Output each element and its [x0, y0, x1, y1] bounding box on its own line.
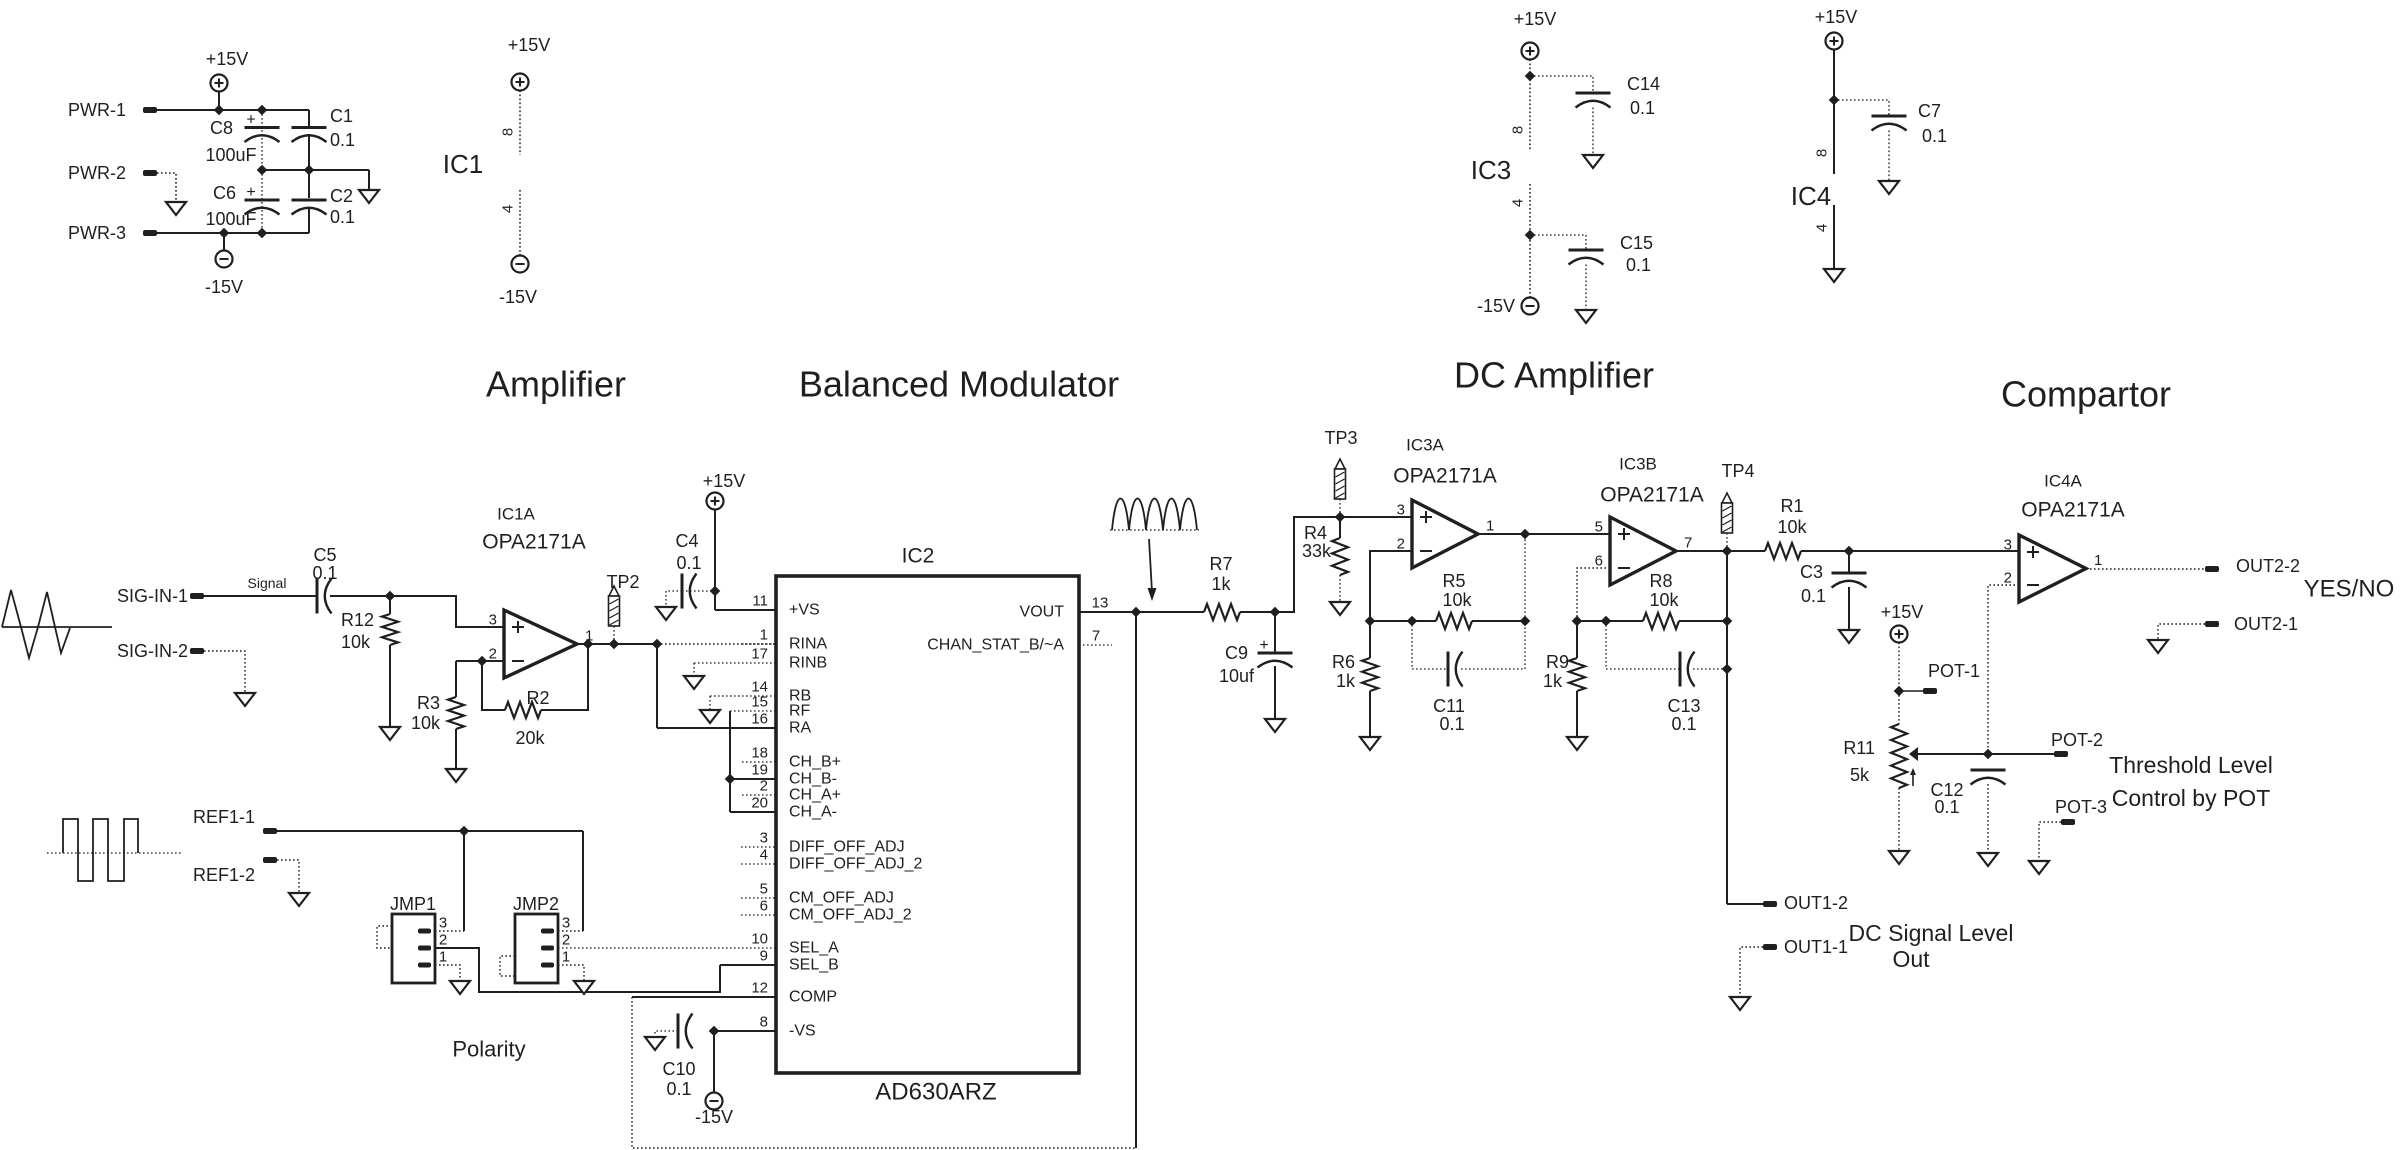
ground: [700, 710, 720, 723]
svg-text:R2: R2: [526, 688, 549, 708]
junction: [1520, 616, 1529, 625]
wire: [456, 660, 504, 662]
svg-text:R11: R11: [1843, 738, 1875, 758]
junction: [214, 105, 223, 114]
resistor R8 10k feedback: [1643, 613, 1679, 629]
IC IC2 AD630ARZ body: [776, 576, 1079, 1073]
svg-text:3: 3: [1397, 502, 1405, 519]
svg-text:-15V: -15V: [205, 277, 243, 297]
svg-text:-15V: -15V: [499, 287, 537, 307]
svg-text:C8: C8: [210, 118, 233, 138]
IC2 pin 14 RB: [710, 695, 776, 697]
svg-text:JMP2: JMP2: [513, 894, 559, 914]
svg-text:10uf: 10uf: [1219, 666, 1255, 686]
svg-text:20: 20: [751, 795, 768, 812]
svg-text:0.1: 0.1: [330, 130, 355, 150]
svg-text:C2: C2: [330, 186, 353, 206]
ground: [380, 727, 400, 740]
svg-text:+15V: +15V: [1815, 7, 1858, 27]
ground: [1265, 719, 1285, 732]
wire: [1135, 612, 1137, 1148]
capacitor C2 0.1: [292, 199, 327, 202]
svg-text:+: +: [246, 112, 255, 129]
svg-text:+: +: [246, 184, 255, 201]
junction: [1722, 616, 1731, 625]
svg-text:C7: C7: [1918, 101, 1941, 121]
svg-text:-15V: -15V: [695, 1107, 733, 1127]
wire: [1524, 534, 1526, 621]
wire: [1679, 620, 1727, 622]
junction: [1270, 607, 1279, 616]
svg-text:18: 18: [751, 745, 768, 762]
svg-text:IC3: IC3: [1471, 155, 1511, 185]
junction: [1520, 529, 1529, 538]
wire: [1727, 903, 1763, 905]
wire: [1585, 265, 1587, 311]
svg-text:4: 4: [1510, 199, 1527, 207]
resistor R7 1k: [1204, 604, 1240, 620]
ground: [656, 607, 676, 620]
svg-text:10: 10: [751, 931, 768, 948]
IC2 pin 17 RINB: [694, 662, 776, 664]
svg-text:4: 4: [1814, 224, 1831, 232]
svg-text:SEL_B: SEL_B: [789, 957, 839, 974]
ground: [1889, 851, 1909, 864]
svg-text:R8: R8: [1649, 571, 1672, 591]
svg-text:C11: C11: [1433, 696, 1465, 716]
svg-text:DC Amplifier: DC Amplifier: [1454, 355, 1654, 396]
wire: [262, 169, 369, 171]
svg-text:2: 2: [562, 932, 570, 949]
svg-text:3: 3: [562, 915, 570, 932]
IC2 pin 3 DIFF_OFF_ADJ: [741, 846, 776, 848]
wire: [1676, 550, 1765, 552]
ground: [450, 981, 470, 994]
svg-text:RINB: RINB: [789, 655, 827, 672]
wire: [1899, 690, 1923, 692]
svg-text:0.1: 0.1: [1439, 714, 1464, 734]
IC2 pin 1 RINA: [742, 643, 776, 645]
junction: [1983, 749, 1992, 758]
svg-text:IC3B: IC3B: [1619, 455, 1657, 474]
svg-text:DIFF_OFF_ADJ: DIFF_OFF_ADJ: [789, 839, 905, 856]
resistor R3 10k: [455, 661, 457, 697]
ground: [1576, 310, 1596, 323]
svg-text:5: 5: [1595, 519, 1603, 536]
junction: [459, 826, 468, 835]
wire: [2039, 822, 2061, 861]
wire: [204, 651, 245, 693]
svg-text:3: 3: [2004, 537, 2012, 554]
junction: [1722, 546, 1731, 555]
svg-text:CH_A+: CH_A+: [789, 787, 841, 804]
capacitor C3 0.1: [1848, 551, 1850, 573]
svg-text:16: 16: [751, 711, 768, 728]
svg-text:5: 5: [760, 881, 768, 898]
svg-text:C13: C13: [1667, 696, 1700, 716]
wire: [277, 830, 583, 832]
svg-text:17: 17: [751, 646, 768, 663]
svg-text:Polarity: Polarity: [452, 1037, 525, 1062]
wire: [1530, 235, 1586, 250]
junction: [1525, 71, 1534, 80]
port REF1-2: [263, 857, 277, 863]
+15V supply symbol for IC1: [512, 74, 529, 91]
svg-text:OUT1-2: OUT1-2: [1784, 893, 1848, 913]
capacitor C8 100uF: [245, 126, 280, 129]
svg-text:3: 3: [489, 612, 497, 629]
svg-text:C3: C3: [1800, 562, 1823, 582]
svg-text:IC1A: IC1A: [497, 505, 535, 524]
+15V supply symbol for IC3: [1522, 43, 1539, 60]
svg-text:0.1: 0.1: [1934, 797, 1959, 817]
svg-text:7: 7: [1092, 628, 1100, 645]
arrow to VOUT wire: [1149, 539, 1152, 592]
ground: [1330, 602, 1350, 615]
svg-text:0.1: 0.1: [1922, 126, 1947, 146]
jumper JMP1: [392, 914, 435, 983]
svg-text:0.1: 0.1: [1626, 255, 1651, 275]
ground: [359, 190, 379, 203]
svg-text:IC4: IC4: [1791, 181, 1831, 211]
svg-text:+: +: [1259, 637, 1268, 654]
svg-text:3: 3: [760, 830, 768, 847]
svg-text:+15V: +15V: [703, 471, 746, 491]
wire: [204, 595, 317, 597]
port PWR-3: [143, 230, 157, 236]
svg-text:0.1: 0.1: [676, 553, 701, 573]
resistor R6 1k: [1369, 621, 1371, 658]
svg-text:JMP1: JMP1: [390, 894, 436, 914]
wire: [1478, 533, 1610, 535]
ground: [1978, 853, 1998, 866]
svg-text:TP4: TP4: [1721, 461, 1754, 481]
capacitor C12 0.1: [1971, 769, 2006, 772]
svg-text:4: 4: [760, 847, 768, 864]
svg-text:8: 8: [1814, 149, 1831, 157]
svg-text:+15V: +15V: [206, 49, 249, 69]
svg-text:RINA: RINA: [789, 636, 828, 653]
wire: [558, 930, 583, 932]
svg-text:R12: R12: [341, 610, 374, 630]
wire: [582, 831, 584, 931]
resistor R9 1k: [1576, 621, 1578, 658]
wire: [713, 1031, 715, 1093]
svg-text:TP2: TP2: [606, 572, 639, 592]
wire: [157, 109, 309, 111]
svg-text:33k: 33k: [1302, 541, 1332, 561]
-15V supply symbol: [216, 251, 233, 268]
junction: [583, 639, 592, 648]
junction: [1335, 512, 1344, 521]
ground: [446, 769, 466, 782]
port SIG-IN-1: [190, 593, 204, 599]
svg-text:AD630ARZ: AD630ARZ: [875, 1079, 996, 1106]
svg-text:IC2: IC2: [902, 545, 935, 568]
svg-text:0.1: 0.1: [1630, 98, 1655, 118]
wire: [1726, 551, 1728, 904]
svg-text:R1: R1: [1780, 496, 1803, 516]
svg-text:REF1-2: REF1-2: [193, 865, 255, 885]
wire: [682, 590, 715, 592]
ground: [2148, 640, 2168, 653]
port POT-3: [2061, 819, 2075, 825]
junction: [477, 656, 486, 665]
resistor R1 10k: [1765, 543, 1801, 559]
wire: [1472, 620, 1525, 622]
wire: [1888, 131, 1890, 182]
ground: [645, 1037, 665, 1050]
op-amp IC3A OPA2171A: [1412, 500, 1478, 568]
capacitor C6 100uF: [245, 199, 280, 202]
wire: [577, 643, 657, 645]
wire: [1275, 517, 1412, 612]
capacitor C11 0.1: [1412, 621, 1448, 669]
potentiometer R11 5k: [1898, 691, 1900, 724]
capacitor C9 10uf: [1274, 612, 1276, 653]
IC2 pin 4 DIFF_OFF_ADJ_2: [741, 863, 776, 865]
svg-text:2: 2: [439, 932, 447, 949]
svg-text:CH_B+: CH_B+: [789, 754, 841, 771]
wire: [693, 663, 695, 676]
wire: [1577, 620, 1643, 622]
ground: [2029, 861, 2049, 874]
junction: [1365, 616, 1374, 625]
svg-text:C14: C14: [1627, 74, 1660, 94]
port OUT1-2: [1763, 901, 1777, 907]
ground: [1583, 155, 1603, 168]
wire: [655, 1031, 678, 1037]
port SIG-IN-2: [190, 648, 204, 654]
svg-text:R3: R3: [417, 693, 440, 713]
capacitor C1 0.1: [292, 126, 327, 129]
resistor R5 10k feedback: [1436, 613, 1472, 629]
svg-text:R4: R4: [1304, 523, 1327, 543]
capacitor C14 0.1: [1576, 92, 1611, 95]
svg-text:YES/NO: YES/NO: [2304, 576, 2395, 603]
svg-text:CM_OFF_ADJ: CM_OFF_ADJ: [789, 890, 894, 907]
svg-text:OUT2-2: OUT2-2: [2236, 556, 2300, 576]
svg-text:REF1-1: REF1-1: [193, 807, 255, 827]
wire: [714, 510, 716, 611]
ground: [1730, 997, 1750, 1010]
resistor R4 33k: [1339, 517, 1341, 538]
svg-text:12: 12: [751, 980, 768, 997]
svg-text:8: 8: [500, 128, 517, 136]
capacitor C5 0.1: [316, 579, 319, 614]
svg-text:Compartor: Compartor: [2001, 374, 2171, 415]
wire: [715, 609, 776, 611]
wire: [435, 930, 464, 932]
svg-text:C1: C1: [330, 106, 353, 126]
svg-text:20k: 20k: [515, 728, 545, 748]
svg-text:POT-2: POT-2: [2051, 730, 2103, 750]
svg-text:CHAN_STAT_B/~A: CHAN_STAT_B/~A: [927, 637, 1064, 654]
svg-text:OPA2171A: OPA2171A: [1600, 484, 1704, 507]
svg-text:OUT1-1: OUT1-1: [1784, 937, 1848, 957]
svg-text:+15V: +15V: [508, 35, 551, 55]
svg-text:RF: RF: [789, 703, 811, 720]
svg-text:1: 1: [439, 949, 447, 966]
wire: [1834, 100, 1889, 116]
svg-text:C5: C5: [313, 545, 336, 565]
svg-text:POT-1: POT-1: [1928, 661, 1980, 681]
junction: [1601, 616, 1610, 625]
svg-text:PWR-3: PWR-3: [68, 223, 126, 243]
port PWR-1: [143, 107, 157, 113]
svg-text:0.1: 0.1: [312, 563, 337, 583]
svg-text:TP3: TP3: [1324, 428, 1357, 448]
port OUT1-1: [1763, 944, 1777, 950]
wire: [368, 170, 370, 190]
wire: [1240, 611, 1275, 613]
ground: [1567, 737, 1587, 750]
+15V supply symbol at IC2: [707, 493, 724, 510]
wire: [277, 860, 299, 893]
wire: [1136, 611, 1204, 613]
wire: [261, 110, 263, 233]
wire: [656, 644, 658, 728]
wire: [1370, 620, 1436, 622]
junction: [1844, 546, 1853, 555]
svg-text:Amplifier: Amplifier: [486, 364, 626, 405]
wire: [1740, 947, 1763, 997]
svg-text:8: 8: [1510, 126, 1527, 134]
svg-text:C15: C15: [1620, 233, 1653, 253]
junction: [1894, 686, 1903, 695]
svg-text:DC Signal Level: DC Signal Level: [1849, 920, 2014, 946]
+15V supply symbol for IC4: [1826, 33, 1843, 50]
svg-text:1: 1: [760, 627, 768, 644]
port OUT2-2: [2205, 566, 2219, 572]
svg-text:Control by POT: Control by POT: [2112, 785, 2271, 811]
wire COMP loop: [632, 997, 1136, 1148]
svg-text:Signal: Signal: [248, 575, 287, 591]
test point TP2: [609, 586, 619, 596]
svg-text:C10: C10: [662, 1059, 695, 1079]
svg-text:10k: 10k: [1777, 517, 1807, 537]
svg-text:-15V: -15V: [1477, 296, 1515, 316]
wire: [330, 595, 390, 597]
IC2 pin 16 RA: [657, 727, 776, 729]
ground: [1879, 181, 1899, 194]
wire: [1988, 585, 2019, 754]
junction: [709, 1026, 718, 1035]
svg-text:IC1: IC1: [443, 149, 483, 179]
IC2 pin 19 CH_B-: [730, 778, 776, 780]
svg-text:19: 19: [751, 762, 768, 779]
svg-text:2: 2: [760, 778, 768, 795]
capacitor C4 0.1: [681, 574, 684, 609]
svg-text:OUT2-1: OUT2-1: [2234, 614, 2298, 634]
svg-text:SEL_A: SEL_A: [789, 940, 839, 957]
svg-text:IC4A: IC4A: [2044, 472, 2082, 491]
junction: [385, 591, 394, 600]
wire: [729, 711, 731, 812]
svg-text:SIG-IN-2: SIG-IN-2: [117, 641, 188, 661]
ground: [1824, 269, 1844, 282]
ground: [574, 981, 594, 994]
svg-text:CM_OFF_ADJ_2: CM_OFF_ADJ_2: [789, 907, 912, 924]
capacitor C13 0.1: [1606, 621, 1680, 669]
op-amp IC4A OPA2171A: [2019, 535, 2086, 602]
svg-text:PWR-1: PWR-1: [68, 100, 126, 120]
wire: [218, 92, 220, 111]
svg-text:4: 4: [500, 205, 517, 213]
input sine waveform sketch: [2, 590, 70, 658]
junction: [257, 165, 266, 174]
svg-text:10k: 10k: [341, 632, 371, 652]
svg-text:2: 2: [1397, 536, 1405, 553]
IC3 pin 4 -V line: [1529, 184, 1531, 298]
wire: [157, 232, 309, 234]
junction: [1829, 95, 1838, 104]
svg-text:CH_B-: CH_B-: [789, 771, 837, 788]
IC3 pin 8 +V line: [1529, 60, 1531, 151]
wire: [1918, 753, 2056, 755]
svg-text:2: 2: [489, 646, 497, 663]
wire: [2086, 568, 2205, 570]
ground: [166, 202, 186, 215]
svg-text:C6: C6: [213, 183, 236, 203]
svg-text:+15V: +15V: [1881, 602, 1924, 622]
svg-text:COMP: COMP: [789, 989, 837, 1006]
svg-text:100uF: 100uF: [205, 145, 256, 165]
resistor R2 20k feedback: [482, 661, 505, 710]
ground: [684, 676, 704, 689]
svg-text:R7: R7: [1209, 554, 1232, 574]
port POT-1: [1923, 688, 1937, 694]
wire: [157, 173, 176, 202]
test point TP3: [1335, 459, 1345, 469]
op-amp IC1A OPA2171A: [504, 610, 577, 678]
wire: [709, 696, 711, 710]
svg-text:1: 1: [2094, 552, 2102, 569]
IC2 pin 6 CM_OFF_ADJ_2: [741, 914, 776, 916]
svg-text:C9: C9: [1225, 643, 1248, 663]
IC2 pin 11 +VS: [715, 609, 776, 611]
svg-text:POT-3: POT-3: [2055, 797, 2107, 817]
capacitor C15 0.1: [1569, 249, 1604, 252]
junction: [257, 228, 266, 237]
svg-text:1k: 1k: [1336, 671, 1356, 691]
wire SEL_B jog: [435, 948, 720, 992]
svg-text:0.1: 0.1: [666, 1079, 691, 1099]
svg-text:OPA2171A: OPA2171A: [482, 531, 586, 554]
ground: [289, 893, 309, 906]
wire: [1530, 76, 1593, 93]
svg-text:OPA2171A: OPA2171A: [2021, 499, 2125, 522]
svg-text:-VS: -VS: [789, 1023, 816, 1040]
IC4 pin 8 +V line: [1833, 50, 1835, 175]
junction: [1525, 230, 1534, 239]
IC1 pin 4 -V line: [519, 190, 521, 255]
IC2 pin 10 SEL_A: [558, 947, 776, 949]
junction: [304, 165, 313, 174]
svg-text:DIFF_OFF_ADJ_2: DIFF_OFF_ADJ_2: [789, 856, 922, 873]
IC2 pin 5 CM_OFF_ADJ: [741, 897, 776, 899]
wire: [1370, 551, 1412, 621]
port POT-2: [2054, 751, 2068, 757]
port REF1-1: [263, 828, 277, 834]
+15V supply symbol (power input): [211, 75, 228, 92]
ground: [1360, 737, 1380, 750]
wire: [666, 591, 682, 607]
wire: [1801, 550, 2019, 552]
junction: [725, 774, 734, 783]
+15V supply symbol at R11: [1891, 626, 1908, 643]
port PWR-2: [143, 170, 157, 176]
